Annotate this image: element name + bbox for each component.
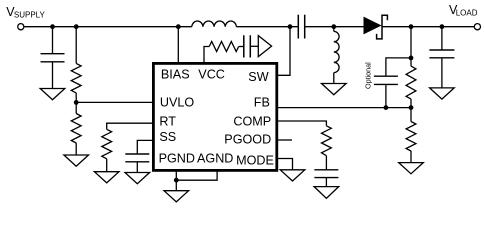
svg-text:Optional: Optional [363, 62, 372, 89]
wire CSS to ground [136, 162, 138, 173]
wire RFB1 to FB node [410, 99, 412, 121]
resistor RUV2 [71, 114, 81, 144]
node junction Cout [440, 24, 445, 29]
diode D1 schottky [364, 15, 388, 39]
capacitor Ccomp [314, 170, 338, 178]
ground MODE [280, 170, 305, 181]
svg-text:PGND: PGND [159, 152, 195, 166]
capacitor Cvcc [244, 35, 251, 57]
resistor RT [102, 129, 112, 159]
svg-text:LOAD: LOAD [456, 8, 478, 17]
node junction PGND AGND [174, 178, 179, 183]
wire rail to L1b [333, 27, 335, 32]
ground RUV2 [64, 155, 89, 166]
wire Rvcc to Cvcc [239, 46, 244, 48]
diode Dvcc anode triangle [258, 36, 271, 57]
wire Cout to ground [441, 58, 443, 88]
wire RFB2 to ground [410, 151, 412, 163]
capacitor Cin [41, 54, 65, 62]
ground Cin [40, 89, 65, 100]
node junction BIAS [176, 24, 181, 29]
svg-text:BIAS: BIAS [161, 67, 190, 81]
resistor RUV1 [71, 63, 81, 93]
wire BIAS pin [177, 27, 179, 63]
node junction optional branch [409, 56, 414, 61]
svg-text:SW: SW [248, 70, 268, 84]
resistor RFB2 [406, 122, 416, 152]
inductor L1b [334, 31, 339, 72]
wire Rcomp to Ccomp [325, 156, 327, 170]
wire VLOAD to RFB1 [410, 27, 412, 66]
ground RT [94, 172, 119, 183]
label VSUPPLY [6, 5, 45, 20]
ground Ccomp [314, 187, 339, 199]
inductor L1a [192, 21, 237, 27]
svg-text:UVLO: UVLO [160, 96, 194, 110]
wire COMP pin [278, 121, 326, 126]
capacitor Cff optional [374, 76, 398, 84]
node junction UVLO divider top [74, 24, 79, 29]
capacitor Cout [429, 50, 454, 58]
wire MODE pin [278, 159, 292, 170]
wire SW pin [278, 27, 290, 76]
wire L1b to ground [333, 73, 335, 84]
ground L1b [322, 84, 347, 95]
wire Cff to FB [385, 84, 387, 107]
node junction FB divider [409, 105, 414, 110]
svg-text:MODE: MODE [236, 153, 274, 167]
resistor Rcomp [322, 126, 332, 156]
capacitor CSS [125, 154, 149, 162]
svg-text:FB: FB [254, 96, 270, 110]
svg-text:PGOOD: PGOOD [224, 132, 271, 146]
svg-text:RT: RT [159, 115, 176, 129]
svg-text:AGND: AGND [197, 152, 233, 166]
ground Cout [430, 88, 455, 99]
wire VCC pin [204, 47, 209, 63]
wire rail to Cin [52, 27, 54, 54]
node junction L1b [331, 24, 336, 29]
ground PGND [164, 191, 189, 202]
capacitor Cc coupling [298, 15, 304, 39]
wire rail to RUV1 [75, 27, 77, 64]
wire Ccomp to ground [325, 178, 327, 187]
node junction diode out [409, 24, 414, 29]
ground CSS [125, 173, 150, 184]
node VSUPPLY terminal [18, 24, 24, 30]
wire diode to VLOAD [382, 26, 474, 28]
svg-text:SUPPLY: SUPPLY [14, 11, 46, 20]
label VLOAD [449, 3, 478, 18]
wire PGND pin [175, 172, 177, 191]
wire optional branch top [386, 58, 411, 76]
wire UVLO pin [76, 101, 152, 103]
wire RT pin [107, 123, 153, 129]
node UVLO junction [74, 100, 79, 105]
wire FB pin [278, 107, 411, 109]
svg-text:SS: SS [159, 130, 176, 144]
wire VSUPPLY rail to inductor [24, 26, 191, 28]
wire RUV1 to node UVLO [75, 93, 77, 114]
node VLOAD terminal [474, 24, 480, 30]
wire SS pin [137, 140, 152, 154]
wire coupling cap to diode [305, 26, 363, 28]
wire RUV2 to ground [75, 143, 77, 155]
wire RT to ground [106, 159, 108, 172]
wire rail to Cout [441, 27, 443, 50]
wire PGOOD pin stub [278, 139, 292, 141]
IC U1 LM5155 [153, 63, 276, 170]
node junction Cin [50, 24, 55, 29]
node junction Cff FB [384, 105, 389, 110]
resistor Rvcc [209, 42, 239, 52]
wire Cvcc to diode Dvcc [250, 45, 258, 47]
wire Cin to ground [52, 62, 54, 89]
node junction SW [288, 24, 293, 29]
svg-text:VCC: VCC [198, 67, 225, 81]
ground RFB2 [399, 163, 424, 174]
resistor RFB1 [406, 66, 416, 99]
wire AGND pin [176, 172, 217, 181]
svg-text:COMP: COMP [233, 115, 271, 129]
wire inductor to coupling cap [236, 26, 297, 28]
